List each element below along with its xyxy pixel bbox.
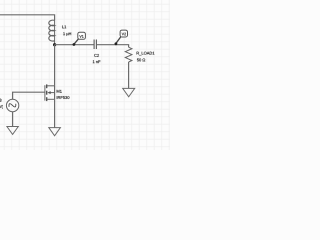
probe V2: [115, 30, 128, 45]
wire rail to capacitor: [55, 44, 95, 46]
label M1 value: [57, 90, 70, 99]
resistor R_LOAD1: [125, 47, 132, 62]
wire rail capacitor to resistor: [96, 45, 128, 48]
voltage source V3 (sine): [6, 99, 18, 111]
MOSFET source wire to ground: [54, 99, 56, 127]
wire resistor to ground: [128, 62, 130, 88]
label C2 value: [93, 54, 101, 63]
ground (source V3): [7, 127, 18, 135]
gate wire from source to M1: [13, 92, 46, 99]
probe V1: [73, 32, 86, 46]
ground (MOSFET source): [49, 128, 61, 136]
MOSFET M1 drain wire: [54, 45, 56, 86]
wire source to ground: [12, 112, 14, 127]
label R_LOAD1 value: [137, 52, 155, 62]
transistor M1: [45, 84, 55, 101]
label L1 value: [62, 25, 71, 35]
inductor L1: [49, 20, 55, 45]
ground (load): [123, 88, 135, 96]
sine symbol: [8, 101, 17, 109]
capacitor C2: [94, 40, 96, 50]
node junction dot: [53, 43, 56, 46]
label V3 value (clipped at left edge): [0, 99, 3, 109]
wire top rail from left edge to inductor: [0, 15, 55, 21]
arrow on body: [47, 91, 50, 94]
